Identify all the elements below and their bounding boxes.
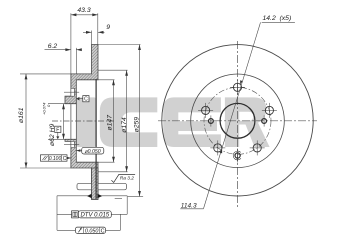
extension line dia161 bottom [20,167,71,169]
bolt hole centerline top [64,91,79,93]
svg-text:Ra 3.2: Ra 3.2 [120,175,134,181]
dimension line dia161 [25,74,27,168]
extension line dia259 top [98,44,141,46]
outer circle dia259 [162,45,313,196]
extension line dia147 top [98,79,115,81]
bore face edges seen through hub hole [70,104,72,140]
extension line dia62 top [48,103,65,105]
dimension line dia174 [126,70,128,172]
bolt hole slot bottom [71,141,75,147]
svg-text:DTV 0.015: DTV 0.015 [80,213,109,219]
bolt hole slot top [71,88,75,96]
thickness probe triangles [87,194,92,198]
watermark ICER letter R [225,97,270,147]
arrows dia161 [25,74,28,80]
section bottom half (pilot + lower plate + hat cylinder + friction ring) [65,139,98,199]
axis centerline left view [52,120,114,122]
arrows 9 [86,31,92,34]
arrows dia147 [112,80,115,86]
extension line 43.3 left [70,13,72,74]
watermark ICER letter I [76,97,97,147]
svg-text:114.3: 114.3 [181,202,197,209]
extension line 43.3/9 right [97,13,99,44]
svg-text:14.2 (x5): 14.2 (x5) [263,15,292,22]
extension line 6.2 right [75,48,77,74]
svg-text:+0.074: +0.074 [42,102,47,115]
surface finish symbol Ra 3.2 [111,174,135,182]
hat circle dia161 [191,74,285,168]
dimension line dia62 [63,104,65,140]
svg-text:0.100: 0.100 [49,156,62,162]
extension line dia174 bottom [98,171,128,173]
DTV loop bracket [57,196,127,231]
dimension line 9 [83,31,92,33]
arrows 6.2 [65,48,71,51]
bolt hole upper left [198,103,213,118]
arrows dia259 [138,45,141,51]
bolt hole lower right [250,140,265,155]
watermark ICER letter C [100,97,158,147]
datum box F on bore [48,126,65,139]
extension line dia161 top [20,73,71,75]
svg-text:ø174: ø174 [121,117,128,133]
svg-text:0.050: 0.050 [85,229,99,235]
right view centerlines [158,120,317,122]
concentricity feature control frame [76,147,103,155]
extension line dia147 bottom [98,161,115,163]
dimension line dia147 [113,80,115,162]
bore circle dia62 [220,103,255,138]
bolt circle 114.3 [204,87,271,154]
runout label box [75,227,105,235]
svg-text:43.3: 43.3 [77,7,90,14]
leader line 14.2 and 114.3 [204,22,261,208]
arrows dia174 [125,70,128,76]
bolt hole centerline bottom [64,144,79,146]
extension line dia174 top [98,69,128,71]
svg-text:9: 9 [106,24,110,31]
svg-text:ø259: ø259 [133,117,140,133]
extension line dia259 bottom [128,196,143,198]
svg-text:C: C [101,229,105,235]
svg-text:C: C [84,97,88,103]
parallelism feature control frame [41,155,71,162]
watermark ICER letter E [163,97,221,147]
small threaded hole bottom [231,149,243,163]
section top half (friction ring + hat cylinder + upper plate + pilot) [65,45,98,104]
small hole left [209,115,214,126]
DTV label box [72,211,112,219]
svg-text:ø147: ø147 [107,115,114,131]
dimension line dia259 [139,45,141,197]
svg-text:⌀0.050: ⌀0.050 [85,149,101,155]
datum C box [76,96,89,103]
extension line 9 left [91,31,93,45]
dimension line 6.2 [45,49,71,51]
bolt hole top [230,80,245,95]
dimension line 43.3 [71,14,98,16]
svg-text:C: C [63,156,67,162]
measurement axis shaft [95,79,97,199]
svg-text:6.2: 6.2 [48,43,58,50]
arrows dia62 [62,104,65,110]
small hole right [262,115,267,126]
svg-text:ø161: ø161 [18,107,25,123]
measurement band capsule [77,183,127,190]
arrows 43.3 [71,13,77,16]
bolt hole lower left [210,140,225,155]
bottom friction bar over band [92,168,99,199]
bolt hole upper right [262,103,277,118]
